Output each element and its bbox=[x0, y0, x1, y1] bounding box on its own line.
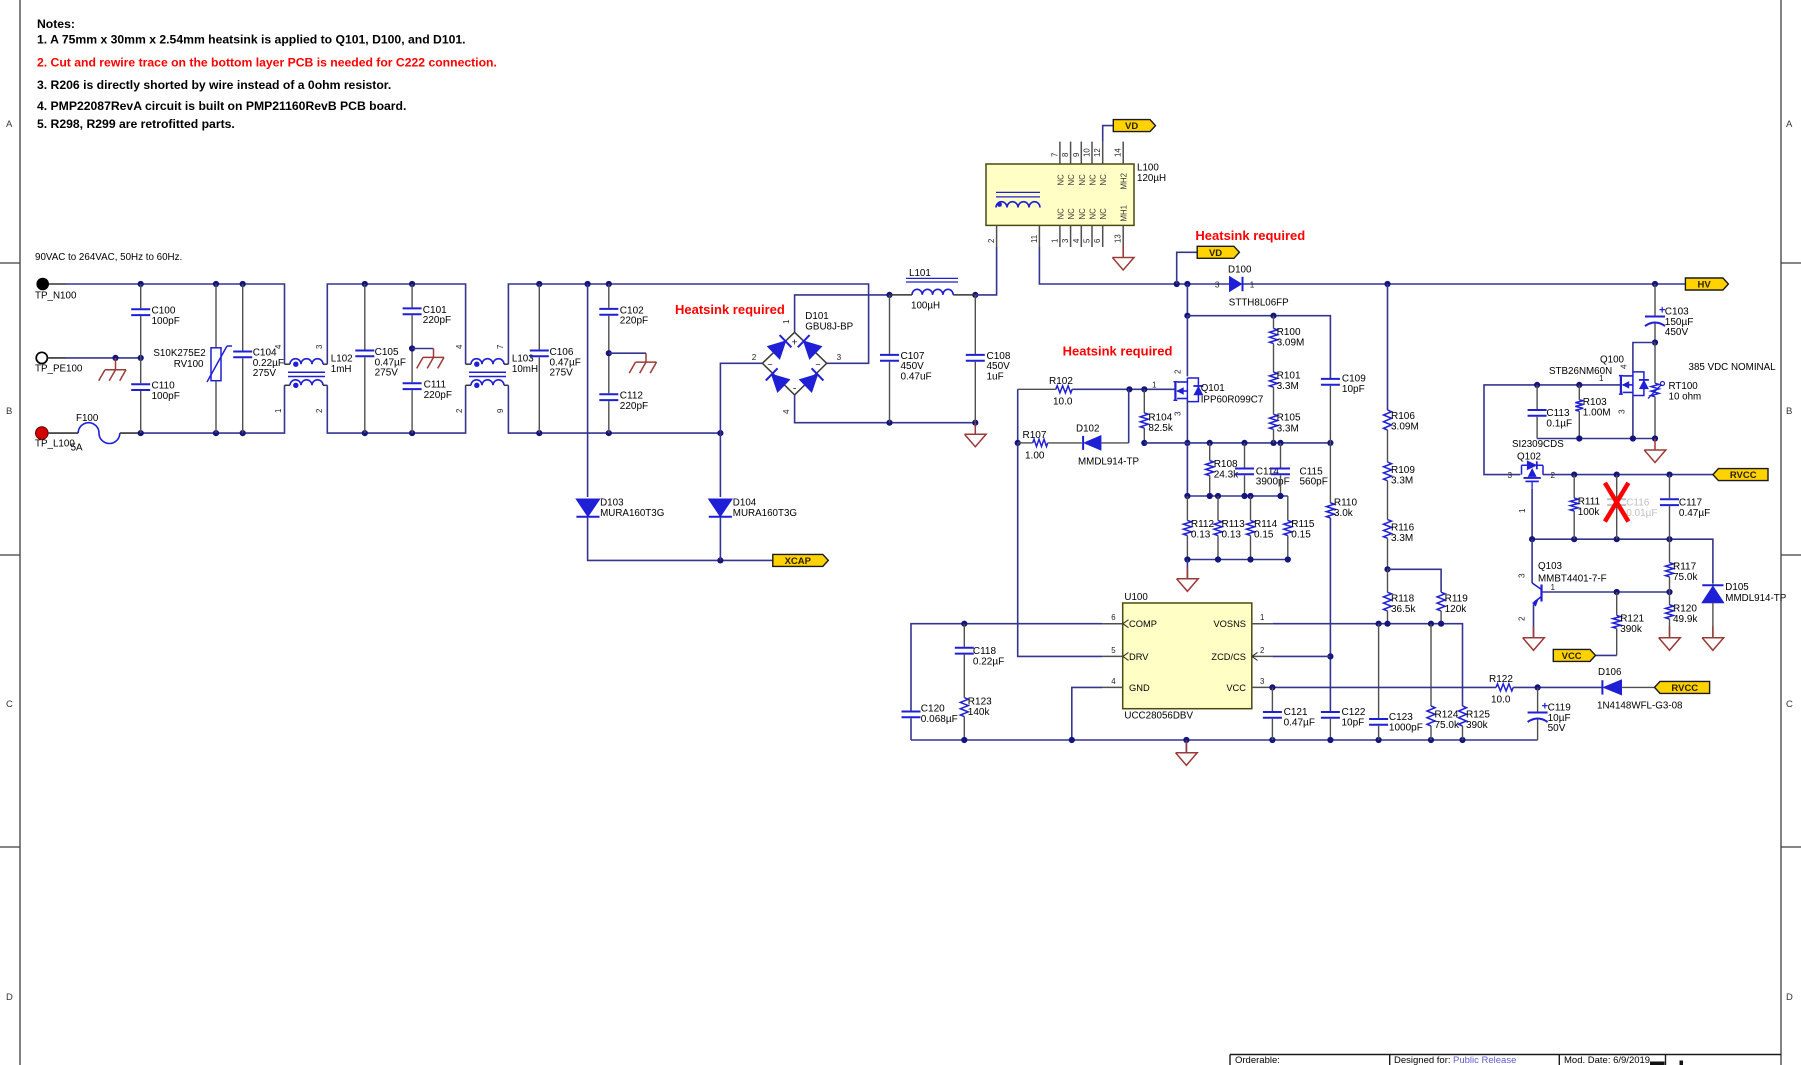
svg-text:100k: 100k bbox=[1578, 507, 1601, 518]
junction C101 C111 midpoint bbox=[409, 345, 415, 351]
wire bridge plus output bbox=[795, 295, 890, 332]
capacitor C105 bbox=[355, 284, 406, 433]
svg-text:NC: NC bbox=[1089, 208, 1098, 220]
wire GND pin to ground rail bbox=[1072, 687, 1102, 740]
svg-text:3: 3 bbox=[1618, 409, 1627, 414]
resistor R117 bbox=[1666, 539, 1699, 592]
border tick right y555 bbox=[1781, 554, 1801, 556]
svg-text:5: 5 bbox=[1083, 238, 1092, 243]
junction R100 top bbox=[1270, 313, 1276, 319]
wire VCC line bbox=[1272, 686, 1496, 688]
resistor R111 bbox=[1570, 475, 1600, 540]
junction ZCD tap bbox=[1327, 653, 1333, 659]
diode D102 bbox=[1048, 424, 1140, 468]
junction L2 C105 bbox=[362, 430, 368, 436]
earth ground at TP_PE100 bbox=[99, 370, 126, 381]
wire D104 branch bbox=[719, 433, 721, 497]
svg-text:0.15: 0.15 bbox=[1291, 530, 1311, 541]
svg-text:390k: 390k bbox=[1466, 720, 1489, 731]
svg-text:R113: R113 bbox=[1222, 519, 1246, 530]
power ground at Q103 emitter bbox=[1523, 626, 1545, 650]
capacitor C104 bbox=[233, 284, 284, 433]
resistor R115 bbox=[1284, 496, 1315, 560]
junction Q103 collector bbox=[1529, 536, 1535, 542]
svg-text:1: 1 bbox=[1518, 508, 1527, 513]
svg-text:-: - bbox=[793, 383, 797, 395]
svg-text:3: 3 bbox=[315, 345, 324, 349]
wire Q101 source to R112 bbox=[1186, 443, 1188, 496]
capacitor C118 bbox=[955, 624, 1004, 698]
power ground at D105 bbox=[1702, 626, 1724, 650]
fuse F100 bbox=[76, 413, 120, 444]
svg-text:D: D bbox=[6, 992, 13, 1003]
wire sense node line bbox=[1144, 442, 1330, 444]
svg-text:C: C bbox=[6, 699, 13, 710]
junction Q101 drain node bbox=[1184, 313, 1190, 319]
junction RT100 bottom bbox=[1652, 435, 1658, 441]
wire gate line bbox=[1072, 388, 1175, 390]
svg-text:R124: R124 bbox=[1435, 710, 1459, 721]
diode D103 bbox=[576, 498, 664, 520]
svg-text:82.5k: 82.5k bbox=[1148, 423, 1173, 434]
svg-text:D100: D100 bbox=[1228, 265, 1252, 276]
wire Q103 emitter bbox=[1533, 605, 1535, 638]
svg-text:450V: 450V bbox=[1665, 327, 1689, 338]
junction Q101 branch bbox=[1184, 281, 1190, 287]
wire rail to R106 bbox=[1387, 284, 1389, 410]
wire PE from TP_PE100 bbox=[66, 357, 141, 359]
svg-text:XCAP: XCAP bbox=[785, 556, 812, 567]
resistor R124 bbox=[1427, 624, 1460, 740]
svg-text:1: 1 bbox=[1260, 613, 1264, 622]
test point TP_PE100 bbox=[35, 352, 83, 374]
svg-text:1: 1 bbox=[1551, 583, 1556, 592]
inductor L101 bbox=[890, 268, 976, 312]
junction C108 top bbox=[972, 292, 978, 298]
resistor R102 bbox=[1018, 376, 1074, 407]
svg-text:MURA160T3G: MURA160T3G bbox=[733, 508, 797, 519]
net flag VD near D100 bbox=[1197, 246, 1239, 259]
svg-text:3: 3 bbox=[1061, 239, 1070, 243]
resistor R125 bbox=[1459, 706, 1491, 740]
wire R102 left corner bbox=[1017, 389, 1019, 443]
wire gate clamp node to D105 bbox=[1532, 539, 1713, 583]
junction R111 bottom bbox=[1571, 536, 1577, 542]
svg-text:4: 4 bbox=[1072, 238, 1081, 243]
junction VCC C121 bbox=[1269, 684, 1275, 690]
svg-text:R122: R122 bbox=[1489, 674, 1513, 685]
net flag VD top bbox=[1113, 120, 1155, 133]
junction R114 top bbox=[1247, 493, 1253, 499]
svg-text:0.068µF: 0.068µF bbox=[921, 714, 958, 725]
svg-text:2: 2 bbox=[1260, 646, 1264, 655]
svg-text:R100: R100 bbox=[1277, 327, 1301, 338]
wire R101 R105 bbox=[1273, 387, 1275, 414]
capacitor C114 bbox=[1235, 443, 1290, 496]
wire R122 to D106 bbox=[1513, 686, 1602, 688]
border tick right y263 bbox=[1781, 262, 1801, 264]
wire R106 R109 bbox=[1387, 430, 1389, 462]
junction R115 bottom bbox=[1285, 556, 1291, 562]
wire Q103 collector bbox=[1531, 539, 1533, 583]
net flag RVCC at D106 bbox=[1655, 681, 1710, 694]
resistor R119 bbox=[1437, 592, 1468, 624]
svg-text:275V: 275V bbox=[375, 368, 399, 379]
svg-text:NC: NC bbox=[1099, 208, 1108, 220]
junction R111 top bbox=[1571, 472, 1577, 478]
svg-text:HV: HV bbox=[1698, 280, 1712, 291]
svg-text:4: 4 bbox=[782, 409, 791, 414]
capacitor C112 bbox=[599, 353, 648, 433]
svg-text:R108: R108 bbox=[1214, 459, 1238, 470]
wire L101 to transformer pin 2 bbox=[975, 247, 996, 295]
svg-text:NC: NC bbox=[1099, 174, 1108, 186]
capacitor C113 bbox=[1528, 385, 1573, 439]
diode D100 bbox=[1215, 265, 1289, 309]
wire TP_N100 lead bbox=[49, 283, 66, 285]
wire R116 to divider node bbox=[1387, 538, 1389, 569]
svg-text:12: 12 bbox=[1093, 148, 1102, 157]
junction R117 R120 bbox=[1666, 589, 1672, 595]
wire ZCD/CS line bbox=[1272, 655, 1330, 657]
svg-text:7: 7 bbox=[496, 345, 505, 349]
capacitor C117 bbox=[1660, 475, 1710, 540]
resistor R112 bbox=[1183, 496, 1214, 560]
svg-text:NC: NC bbox=[1078, 174, 1087, 186]
wire N rail segment 2 bbox=[327, 284, 465, 364]
junction N rail RV100 bbox=[213, 281, 219, 287]
svg-text:R104: R104 bbox=[1148, 412, 1172, 423]
svg-text:Public Release: Public Release bbox=[1453, 1055, 1516, 1065]
svg-text:NC: NC bbox=[1078, 208, 1087, 220]
svg-text:1: 1 bbox=[274, 409, 283, 413]
svg-text:275V: 275V bbox=[550, 368, 574, 379]
svg-text:10.0: 10.0 bbox=[1491, 695, 1511, 706]
svg-text:560pF: 560pF bbox=[1300, 477, 1328, 488]
svg-text:2. Cut and rewire trace on the: 2. Cut and rewire trace on the bottom la… bbox=[37, 56, 497, 70]
svg-text:TP_L100: TP_L100 bbox=[35, 439, 75, 450]
svg-text:1. A 75mm x 30mm x 2.54mm heat: 1. A 75mm x 30mm x 2.54mm heatsink is ap… bbox=[37, 33, 466, 47]
wire R100 R101 bbox=[1273, 344, 1275, 373]
svg-text:Orderable:: Orderable: bbox=[1235, 1055, 1280, 1065]
junction C117 bottom bbox=[1666, 536, 1672, 542]
resistor R105 bbox=[1270, 413, 1301, 443]
svg-text:385 VDC NOMINAL: 385 VDC NOMINAL bbox=[1689, 362, 1777, 373]
junction C109 bottom R110 top bbox=[1327, 440, 1333, 446]
diode D104 bbox=[709, 498, 797, 520]
wire drain node to R100 and C109 bbox=[1187, 316, 1330, 378]
svg-text:10pF: 10pF bbox=[1342, 717, 1365, 728]
svg-text:9: 9 bbox=[496, 409, 505, 413]
svg-text:R102: R102 bbox=[1049, 376, 1073, 387]
junction N3 D103 bbox=[585, 281, 591, 287]
wire R110 to ZCD and C122 bbox=[1329, 518, 1331, 711]
svg-text:D102: D102 bbox=[1076, 424, 1099, 435]
svg-text:3: 3 bbox=[1215, 281, 1220, 290]
resistor R109 bbox=[1384, 462, 1416, 487]
junction R119 bottom bbox=[1438, 621, 1444, 627]
net flag VCC bbox=[1553, 649, 1595, 662]
svg-text:140k: 140k bbox=[968, 707, 991, 718]
svg-text:220pF: 220pF bbox=[424, 390, 452, 401]
svg-text:R118: R118 bbox=[1391, 594, 1415, 605]
svg-text:A: A bbox=[6, 119, 13, 130]
svg-text:R105: R105 bbox=[1277, 413, 1301, 424]
junction R105 bottom bbox=[1270, 440, 1276, 446]
junction C107 bottom bbox=[886, 420, 892, 426]
capacitor C121 bbox=[1263, 687, 1315, 740]
transformer L100 bbox=[986, 163, 1166, 226]
net flag XCAP bbox=[773, 554, 829, 567]
svg-text:R114: R114 bbox=[1254, 519, 1278, 530]
wire Q102 gate down bbox=[1531, 489, 1533, 540]
resistor R106 bbox=[1384, 410, 1419, 433]
svg-text:0.22µF: 0.22µF bbox=[973, 656, 1004, 667]
junction VD tap bbox=[1174, 281, 1180, 287]
bridge rectifier D101 bbox=[752, 311, 854, 414]
svg-text:D: D bbox=[1786, 992, 1793, 1003]
border tick left y555 bbox=[0, 554, 20, 556]
svg-text:TP_N100: TP_N100 bbox=[35, 291, 77, 302]
svg-text:A: A bbox=[1786, 119, 1793, 130]
svg-text:Designed for:: Designed for: bbox=[1394, 1055, 1451, 1065]
svg-text:1N4148WFL-G3-08: 1N4148WFL-G3-08 bbox=[1597, 701, 1683, 712]
capacitor C115 bbox=[1271, 443, 1328, 496]
wire D103 branch bbox=[587, 284, 589, 497]
wire VD flag at transformer pin 12 bbox=[1103, 126, 1114, 142]
junction N3 C102 bbox=[606, 281, 612, 287]
wire COMP line and C120 branch bbox=[911, 624, 1102, 711]
junction C114 bottom bbox=[1241, 493, 1247, 499]
svg-text:DRV: DRV bbox=[1129, 652, 1149, 662]
svg-text:R120: R120 bbox=[1673, 604, 1697, 615]
svg-text:STTH8L06FP: STTH8L06FP bbox=[1229, 298, 1289, 309]
svg-text:Heatsink required: Heatsink required bbox=[675, 302, 785, 317]
svg-text:MH2: MH2 bbox=[1120, 173, 1129, 189]
junction rail R124 bbox=[1428, 737, 1434, 743]
resistor R116 bbox=[1384, 520, 1415, 545]
net flag RVCC at Q102 bbox=[1713, 469, 1768, 482]
svg-text:R109: R109 bbox=[1391, 465, 1415, 476]
svg-text:U100: U100 bbox=[1124, 592, 1148, 603]
svg-text:3.0k: 3.0k bbox=[1334, 508, 1354, 519]
wire drain down to Q101 bbox=[1186, 316, 1188, 377]
svg-text:R106: R106 bbox=[1391, 411, 1415, 422]
svg-text:2: 2 bbox=[752, 353, 757, 362]
svg-text:S10K275E2: S10K275E2 bbox=[153, 348, 205, 359]
svg-text:D104: D104 bbox=[733, 498, 757, 509]
capacitor C123 bbox=[1369, 624, 1423, 740]
junction C119 bbox=[1535, 684, 1541, 690]
svg-text:R115: R115 bbox=[1291, 519, 1315, 530]
svg-text:IPP60R099C7: IPP60R099C7 bbox=[1201, 395, 1264, 406]
svg-text:VCC: VCC bbox=[1562, 651, 1582, 662]
svg-text:0.47µF: 0.47µF bbox=[1679, 508, 1710, 519]
svg-text:11: 11 bbox=[1030, 235, 1039, 243]
border tick left y847 bbox=[0, 846, 20, 848]
earth ground at C102/C112 bbox=[629, 362, 656, 373]
junction N3 C106 bbox=[536, 281, 542, 287]
svg-text:~: ~ bbox=[815, 360, 820, 370]
test point TP_L100 bbox=[35, 427, 83, 454]
junction N2 C101 bbox=[409, 281, 415, 287]
svg-text:10pF: 10pF bbox=[1342, 384, 1365, 395]
svg-text:14: 14 bbox=[1114, 148, 1123, 157]
svg-text:3: 3 bbox=[1508, 471, 1513, 480]
svg-text:MURA160T3G: MURA160T3G bbox=[600, 508, 664, 519]
svg-text:49.9k: 49.9k bbox=[1673, 614, 1698, 625]
svg-text:2: 2 bbox=[987, 239, 996, 243]
svg-text:F100: F100 bbox=[76, 413, 99, 424]
svg-text:TP_PE100: TP_PE100 bbox=[35, 364, 83, 375]
svg-text:90VAC to 264VAC, 50Hz to 60Hz.: 90VAC to 264VAC, 50Hz to 60Hz. bbox=[35, 252, 182, 263]
svg-text:R107: R107 bbox=[1023, 430, 1047, 441]
wire L rail segment 2 bbox=[327, 385, 465, 433]
svg-text:R119: R119 bbox=[1445, 594, 1469, 605]
wire N rail segment 1 into L102 pin4 bbox=[66, 284, 285, 364]
svg-text:10 ohm: 10 ohm bbox=[1669, 392, 1702, 403]
capacitor C120 bbox=[902, 704, 958, 725]
svg-text:2: 2 bbox=[315, 409, 324, 413]
svg-text:100pF: 100pF bbox=[152, 391, 180, 402]
junction C117 top bbox=[1666, 472, 1672, 478]
svg-text:R116: R116 bbox=[1391, 523, 1415, 534]
mosfet Q101 bbox=[1152, 369, 1263, 416]
junction R121 top bbox=[1614, 589, 1620, 595]
transistor Q103 bbox=[1518, 561, 1607, 621]
junction PE line C100 C110 bbox=[138, 355, 144, 361]
junction gate R104 bbox=[1141, 386, 1147, 392]
wire N rail segment 3 into bridge pin3 bbox=[508, 284, 868, 364]
wire Q100 gate to Q102 source bbox=[1484, 385, 1621, 475]
svg-text:3.3M: 3.3M bbox=[1277, 423, 1299, 434]
wire VD flag 2 tap bbox=[1177, 252, 1198, 284]
svg-text:VOSNS: VOSNS bbox=[1213, 619, 1246, 629]
test point TP_N100 bbox=[35, 278, 77, 302]
capacitor C108 bbox=[966, 295, 1011, 423]
wire L rail segment 3 bbox=[508, 385, 720, 433]
mosfet Q100 bbox=[1549, 355, 1649, 415]
svg-text:R110: R110 bbox=[1334, 498, 1358, 509]
svg-text:3: 3 bbox=[1518, 573, 1527, 578]
junction L2 C111 bbox=[409, 430, 415, 436]
wire Q103 base line bbox=[1546, 591, 1670, 593]
junction C107 top bbox=[886, 292, 892, 298]
junction C113 top bbox=[1534, 382, 1540, 388]
capacitor C119 bbox=[1528, 687, 1572, 740]
svg-text:0.13: 0.13 bbox=[1191, 530, 1211, 541]
wire Q101 source bbox=[1186, 400, 1188, 443]
svg-text:VD: VD bbox=[1209, 248, 1222, 259]
transformer L100 top pins bbox=[1050, 142, 1128, 190]
wire D104 to XCAP bbox=[719, 518, 721, 561]
transformer L100 bottom pins bbox=[987, 205, 1129, 247]
svg-text:75.0k: 75.0k bbox=[1435, 720, 1460, 731]
svg-text:75.0k: 75.0k bbox=[1673, 572, 1698, 583]
common-mode choke L102 bbox=[274, 344, 353, 413]
capacitor C110 bbox=[131, 358, 180, 433]
resistor R104 bbox=[1140, 389, 1174, 443]
svg-text:3: 3 bbox=[837, 353, 842, 362]
svg-text:1uF: 1uF bbox=[987, 372, 1004, 383]
svg-text:13: 13 bbox=[1114, 234, 1123, 243]
svg-text:1: 1 bbox=[1152, 381, 1157, 390]
svg-text:4. PMP22087RevA circuit is bui: 4. PMP22087RevA circuit is built on PMP2… bbox=[37, 99, 406, 113]
junction PE ground tap bbox=[112, 355, 118, 361]
svg-text:D103: D103 bbox=[600, 498, 624, 509]
svg-text:3.3M: 3.3M bbox=[1391, 476, 1413, 487]
svg-text:1: 1 bbox=[1050, 239, 1059, 243]
red X over C116 bbox=[1605, 483, 1629, 522]
svg-text:100pF: 100pF bbox=[152, 316, 180, 327]
svg-text:275V: 275V bbox=[253, 368, 277, 379]
capacitor C102 bbox=[599, 284, 648, 353]
wire XCAP net bbox=[588, 518, 773, 561]
svg-text:NC: NC bbox=[1056, 174, 1065, 186]
svg-text:GND: GND bbox=[1129, 683, 1150, 693]
svg-text:D106: D106 bbox=[1598, 667, 1622, 678]
svg-text:COMP: COMP bbox=[1129, 619, 1157, 629]
junction C108 bottom bbox=[972, 420, 978, 426]
svg-text:0.15: 0.15 bbox=[1254, 530, 1274, 541]
resistor R118 bbox=[1384, 569, 1417, 624]
wire R121 to VCC flag bbox=[1596, 654, 1617, 656]
mosfet Q102 p-channel bbox=[1508, 439, 1565, 513]
svg-text:RT100: RT100 bbox=[1669, 381, 1699, 392]
wire RVCC net line bbox=[1543, 474, 1713, 476]
svg-text:B: B bbox=[1786, 406, 1792, 417]
svg-text:L101: L101 bbox=[909, 268, 931, 279]
svg-text:3.3M: 3.3M bbox=[1277, 381, 1299, 392]
svg-text:Mod. Date: 6/9/2019: Mod. Date: 6/9/2019 bbox=[1564, 1055, 1650, 1065]
junction Q100 drain RT100 bbox=[1652, 339, 1658, 345]
capacitor C116 (removed) bbox=[1607, 475, 1657, 540]
svg-text:0.1µF: 0.1µF bbox=[1546, 418, 1572, 429]
diode D105 bbox=[1702, 582, 1786, 638]
wire sense gnd stub bbox=[1186, 560, 1188, 579]
svg-text:VCC: VCC bbox=[1226, 683, 1246, 693]
svg-text:0.47µF: 0.47µF bbox=[1284, 717, 1315, 728]
resistor R103 bbox=[1575, 385, 1610, 439]
wire Q100 source bbox=[1632, 396, 1634, 439]
svg-text:MMDL914-TP: MMDL914-TP bbox=[1078, 457, 1139, 468]
net flag HV bbox=[1685, 278, 1728, 291]
junction R113 bottom bbox=[1215, 556, 1221, 562]
svg-text:R103: R103 bbox=[1583, 397, 1607, 408]
svg-text:R121: R121 bbox=[1620, 614, 1644, 625]
wire main rail from pin 11 to D100 bbox=[1039, 247, 1229, 284]
svg-text:NC: NC bbox=[1089, 174, 1098, 186]
svg-text:NC: NC bbox=[1067, 174, 1076, 186]
svg-text:1: 1 bbox=[1599, 374, 1604, 383]
junction L3 C106 bbox=[536, 430, 542, 436]
junction Q101 source sense bbox=[1184, 440, 1190, 446]
wire TP_L100 lead bbox=[48, 432, 78, 434]
junction L rail C110 bbox=[138, 430, 144, 436]
svg-text:R125: R125 bbox=[1466, 710, 1490, 721]
svg-text:D105: D105 bbox=[1725, 582, 1749, 593]
wire rail gnd stub bbox=[1185, 740, 1187, 753]
sheet border left bbox=[19, 0, 21, 1065]
svg-text:1.00: 1.00 bbox=[1025, 450, 1045, 461]
wire TP_PE100 lead bbox=[48, 357, 67, 359]
svg-text:3: 3 bbox=[1174, 411, 1183, 416]
power ground at sense resistors bbox=[1177, 567, 1199, 591]
wire bridge minus output bbox=[795, 395, 976, 423]
junction R107 DRV bbox=[1015, 440, 1021, 446]
junction L rail RV100 bbox=[213, 430, 219, 436]
wire DRV line bbox=[1018, 443, 1102, 657]
